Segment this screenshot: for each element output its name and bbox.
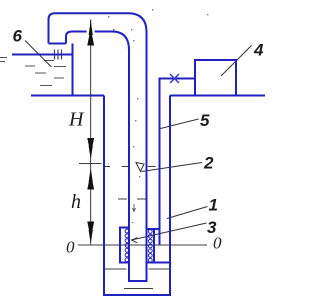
leader 5: [161, 119, 199, 129]
well water level tick (H/h boundary): [79, 163, 102, 165]
svg-text:6: 6: [13, 27, 23, 46]
svg-text:4: 4: [253, 41, 264, 60]
arrow down at datum: [87, 222, 94, 245]
svg-text:H: H: [68, 109, 85, 131]
nabla water-level symbol (node 2): [136, 163, 144, 172]
tank water dashes: [25, 61, 66, 86]
svg-text:5: 5: [200, 111, 210, 130]
datum line 0-0: [78, 244, 207, 246]
mixer perforations left: [125, 229, 129, 262]
svg-text:h: h: [71, 191, 81, 213]
riser pipe gooseneck outer wall: [49, 13, 147, 281]
well casing 1: [104, 96, 170, 296]
svg-text:0: 0: [213, 234, 222, 253]
leader 6: [25, 41, 52, 68]
flow mark in riser: [133, 204, 136, 212]
arrow up below well level: [87, 168, 94, 190]
svg-text:1: 1: [209, 196, 218, 215]
compressor 4: [195, 60, 236, 96]
riser pipe gooseneck inner wall: [66, 32, 129, 282]
ground ledge right: [170, 95, 265, 97]
leader 3 with arrow: [132, 223, 207, 240]
riser pipe bottom edge: [128, 280, 148, 282]
spout mouth edge: [49, 43, 67, 45]
lower chamber water line: [105, 268, 169, 270]
valve X: [170, 74, 179, 83]
dimension line H/h: [90, 20, 92, 245]
tank 6 water surface: [12, 54, 73, 56]
leader 4: [221, 46, 252, 77]
emulsion dashes in riser: [118, 198, 146, 200]
tank right wall: [72, 44, 74, 96]
mixer 3 right shell: [147, 229, 170, 263]
water level dashes in casing annulus: [103, 166, 156, 168]
ground ledge left: [31, 95, 104, 97]
leader 1: [167, 207, 208, 219]
well bottom line: [124, 288, 153, 290]
gap in inner wall at arrow crossing: [87, 30, 95, 34]
mixer perforations right: [148, 230, 152, 263]
svg-text:0: 0: [66, 238, 75, 257]
left margin marks: [0, 58, 7, 62]
mixer 3 left shell: [120, 228, 129, 263]
leader 2: [142, 163, 203, 172]
air pipe 5: [160, 79, 196, 246]
arrow down at well level: [87, 138, 94, 160]
stipple specks: [108, 9, 208, 233]
arrow up at discharge: [87, 21, 94, 46]
svg-text:2: 2: [203, 154, 214, 173]
tank surface ticks: [55, 50, 62, 60]
